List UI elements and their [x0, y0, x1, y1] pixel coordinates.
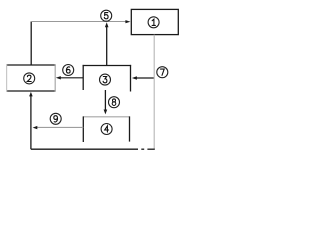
arrowhead into box 1 (arrow 5) — [125, 20, 130, 23]
box 2 : right edge (faded) — [54, 65, 56, 92]
box 2 : left edge (faded) — [6, 65, 8, 92]
wire: bottom horizontal line (solid part) — [31, 148, 138, 150]
box 4 : left edge — [82, 116, 84, 142]
label circle 5 — [101, 10, 112, 21]
label circle 9 — [50, 113, 61, 124]
wire: vertical from box 3 top up to top line — [106, 26, 108, 66]
wire: vertical faded line down from box 1 (line 7) — [153, 35, 155, 150]
label circle 7 — [157, 67, 168, 78]
wire: horizontal from line 7 into box 3 right — [136, 77, 155, 79]
box 2 : bottom edge — [6, 90, 56, 92]
wire: vertical up from box 2 top — [30, 22, 32, 66]
box 1 (top right) — [131, 9, 178, 34]
box 4 : right edge — [129, 116, 131, 141]
arrow 9 : faded wire from box 4 left toward left vertical — [36, 126, 83, 128]
box 2 (left) : top edge — [6, 64, 56, 66]
arrow 8 : wire from box 3 bottom down to box 4 — [104, 90, 106, 111]
box 3 (center, open bottom) : top edge — [83, 65, 132, 67]
arrowhead down into box 4 (arrow 8) — [104, 110, 108, 115]
arrowhead left (arrow 9) — [33, 126, 38, 129]
label circle 2 — [24, 73, 35, 84]
arrow 6 : wire from box 3 left to box 2 right — [60, 77, 84, 79]
wire: bottom line last solid piece to corner — [147, 148, 154, 150]
wire: top horizontal (faded) toward box 1 — [31, 21, 127, 23]
box 3 : left edge — [82, 65, 84, 90]
arrowhead into box 3 (from 7) — [132, 76, 137, 79]
box 4 (bottom center, open bottom) : top edge (faded) — [83, 116, 129, 118]
label circle 8 — [109, 97, 120, 108]
label circle 4 — [101, 124, 112, 135]
label circle 6 — [63, 65, 74, 76]
arrowhead into box 2 (arrow 6) — [56, 76, 61, 79]
box 3 : right edge — [130, 65, 132, 92]
label circle 3 — [100, 74, 111, 85]
label circle 1 — [148, 17, 159, 28]
wire: left vertical from bottom line up into box 2 bottom — [30, 95, 32, 150]
arrowhead up into box 2 bottom — [29, 92, 33, 97]
arrowhead up at junction with top line — [105, 22, 109, 27]
wire: bottom line short dash — [141, 148, 144, 150]
